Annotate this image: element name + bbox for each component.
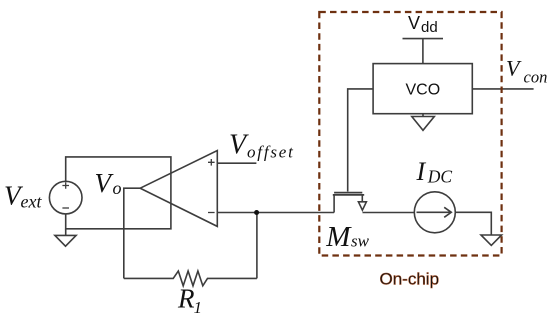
svg-text:1: 1	[194, 298, 203, 317]
svg-text:ext: ext	[21, 192, 43, 212]
svg-text:V: V	[229, 129, 249, 160]
svg-text:V: V	[95, 168, 115, 198]
svg-text:M: M	[325, 221, 352, 253]
svg-text:dd: dd	[421, 19, 438, 36]
svg-text:I: I	[416, 157, 427, 186]
svg-text:offset: offset	[247, 142, 295, 161]
svg-text:DC: DC	[427, 167, 453, 187]
svg-text:VCO: VCO	[406, 82, 441, 99]
svg-text:On-chip: On-chip	[380, 270, 440, 289]
svg-text:V: V	[506, 55, 522, 80]
svg-text:con: con	[524, 67, 548, 86]
svg-text:V: V	[408, 13, 420, 33]
svg-text:R: R	[177, 284, 195, 314]
svg-text:sw: sw	[351, 232, 370, 251]
svg-text:o: o	[113, 178, 122, 198]
